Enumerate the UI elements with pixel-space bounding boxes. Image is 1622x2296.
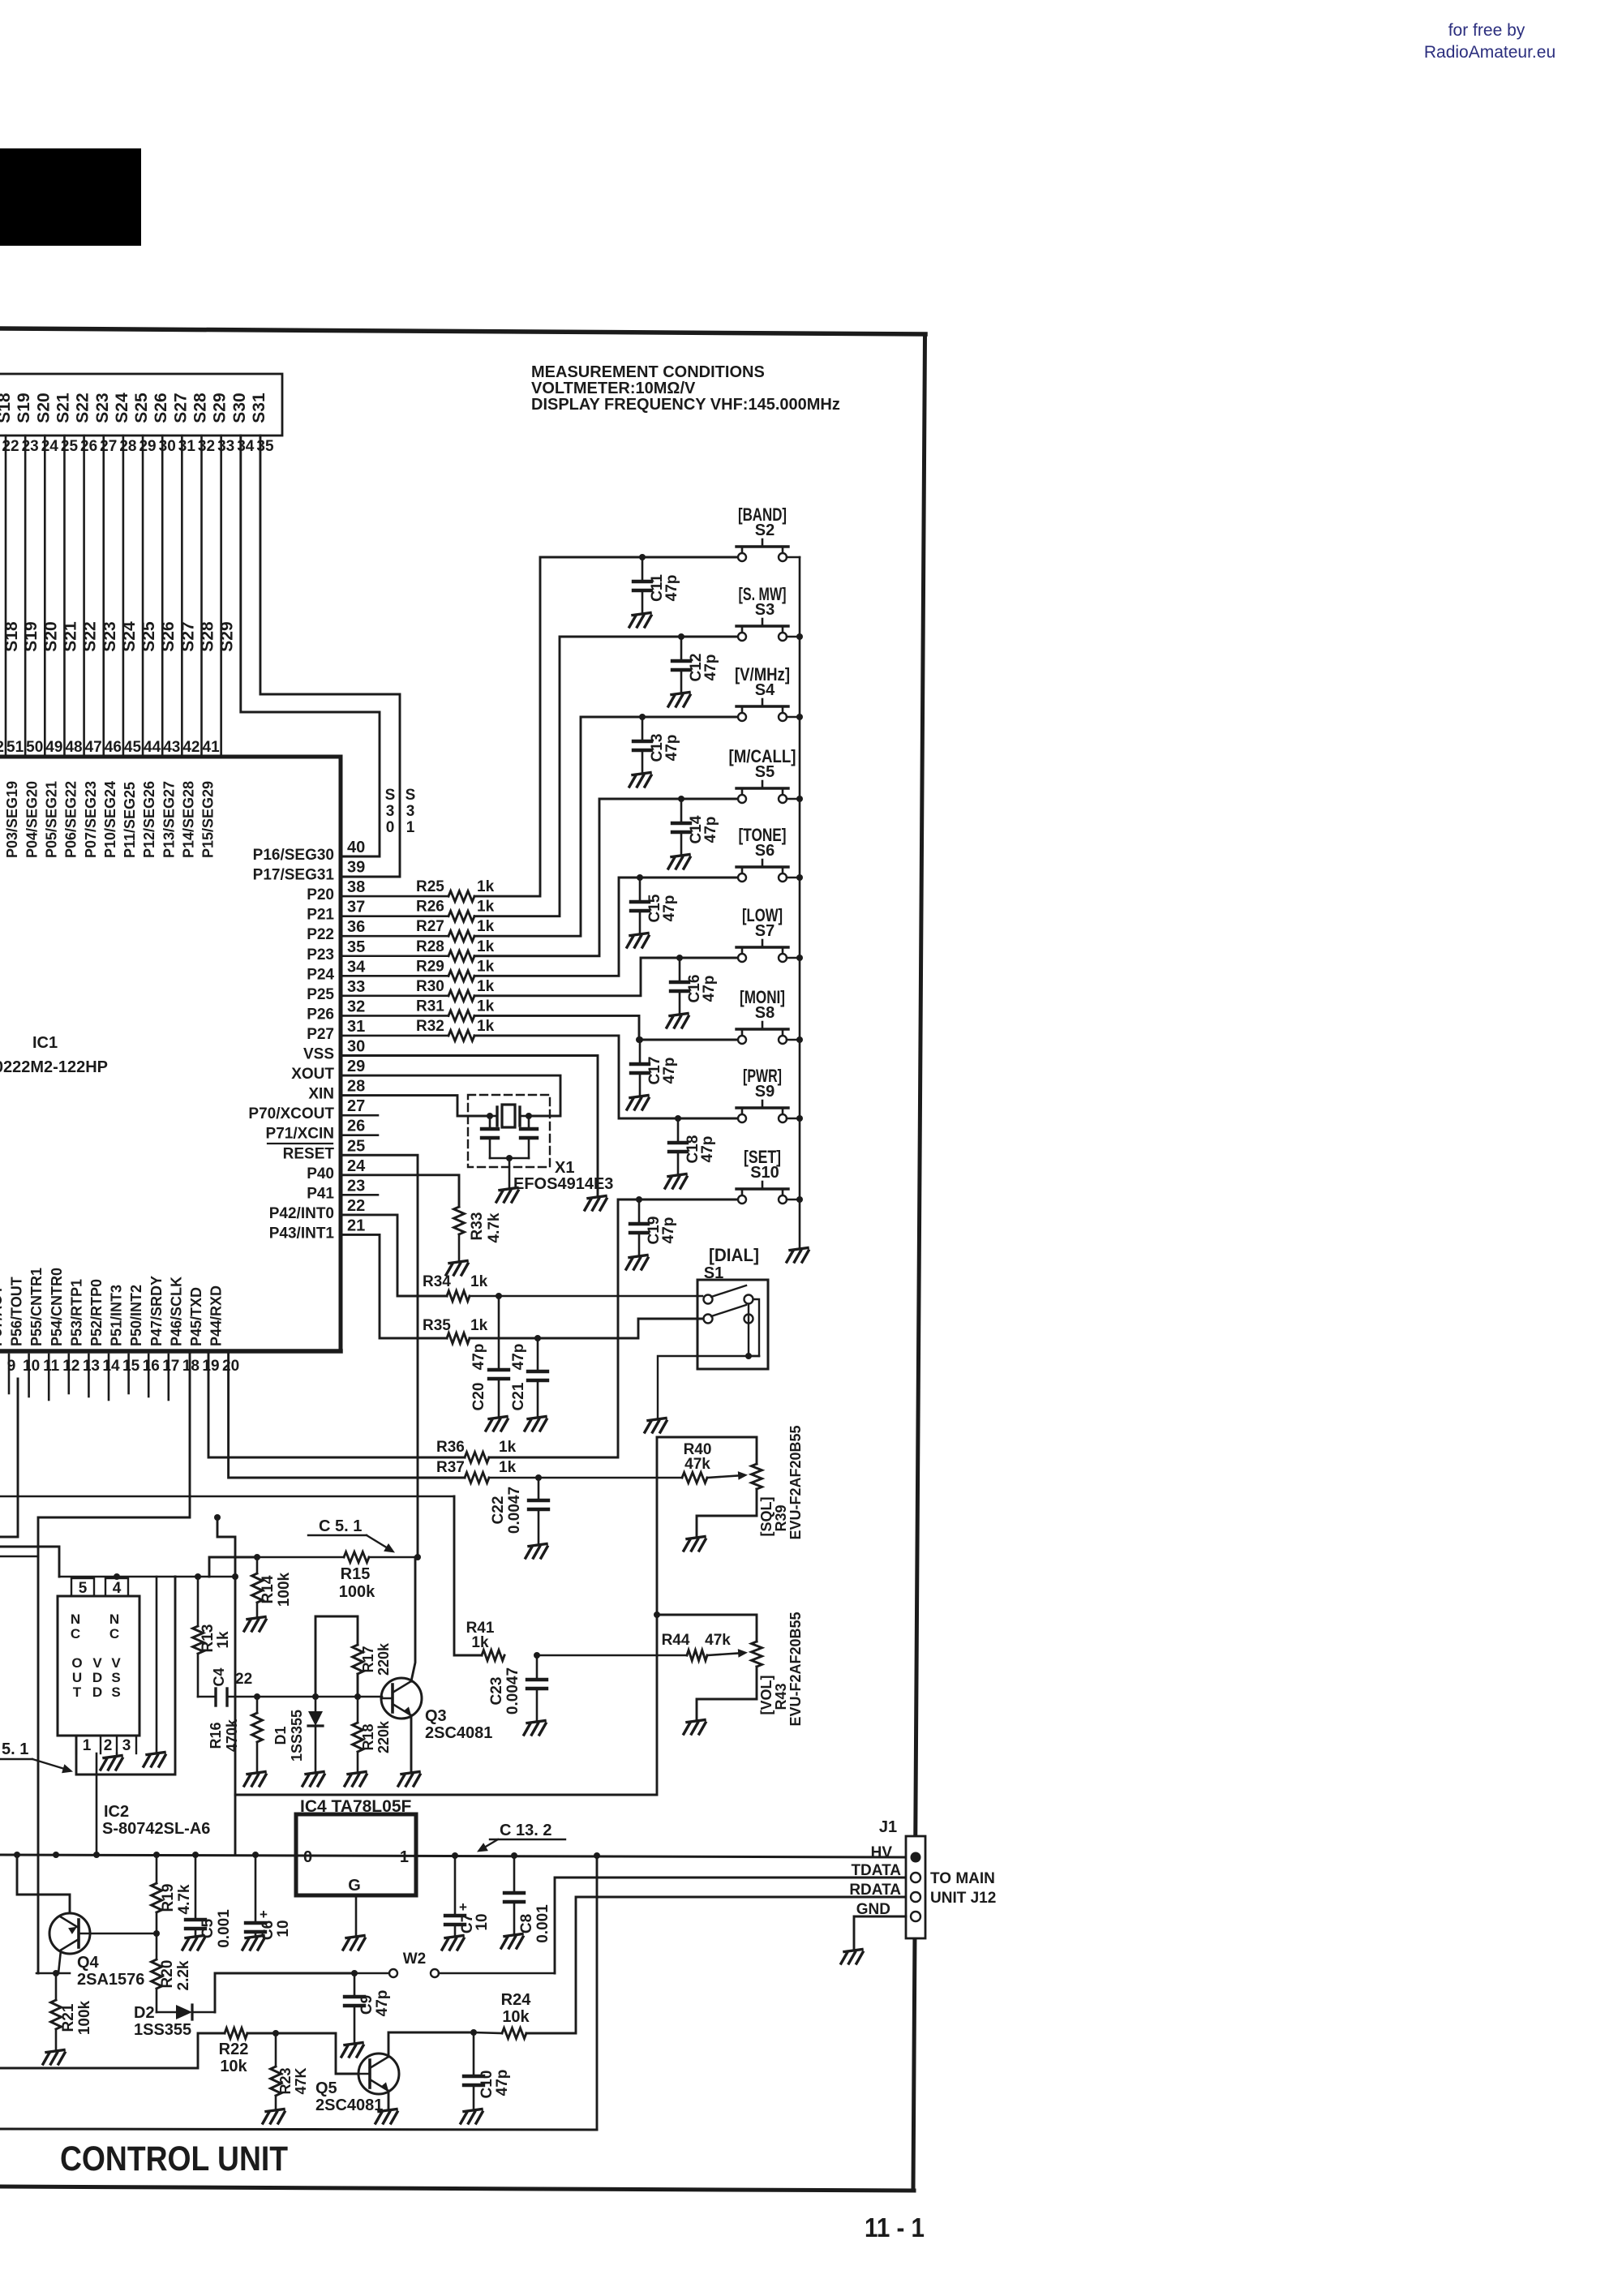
svg-text:R25: R25 <box>416 878 444 895</box>
IC1 pin label P25 <box>307 986 334 1003</box>
resistor R33 4.7k <box>341 1175 503 1260</box>
connector pin number 23 <box>22 438 39 455</box>
svg-text:R24: R24 <box>501 1991 532 2009</box>
ground (C6) <box>242 1936 264 1951</box>
Q4 emitter wire <box>17 1855 70 1913</box>
IC1 pin number 37 <box>347 899 365 916</box>
svg-text:C9: C9 <box>358 1995 375 2015</box>
diode D1 1SS355 <box>272 1697 323 1771</box>
svg-text:HV: HV <box>871 1844 893 1861</box>
wire S22 (connector to IC1 pin 48) <box>83 436 85 755</box>
resistor R17 220k <box>315 1616 392 1697</box>
svg-text:16: 16 <box>143 1358 160 1375</box>
svg-text:P54/CNTR0: P54/CNTR0 <box>49 1268 65 1346</box>
IC1 pin number 48 <box>65 739 82 756</box>
IC1 pin label P43/INT1 <box>269 1225 335 1242</box>
svg-text:+: + <box>260 1907 268 1922</box>
connector label S26 <box>152 393 170 423</box>
ground (C5) <box>182 1936 204 1951</box>
callout C 13.2 <box>477 1822 565 1852</box>
wire pin20 to R37 <box>229 1354 465 1478</box>
net label S28 <box>199 621 217 652</box>
ground (IC2 pins) <box>101 1756 122 1770</box>
svg-text:S21: S21 <box>61 621 79 652</box>
svg-text:for free by: for free by <box>1448 21 1525 40</box>
capacitor C14 47p <box>672 796 719 856</box>
connector label S23 <box>93 393 112 423</box>
svg-text:C20: C20 <box>470 1383 487 1411</box>
svg-text:47p: 47p <box>663 575 680 602</box>
svg-text:S22: S22 <box>74 393 92 423</box>
svg-text:38: 38 <box>347 878 365 896</box>
jumper W2 <box>354 1951 555 1977</box>
svg-text:IC2: IC2 <box>104 1803 129 1821</box>
capacitor C10 47p <box>464 2032 511 2109</box>
connector label S19 <box>15 393 33 423</box>
svg-text:42: 42 <box>182 739 200 756</box>
svg-text:1k: 1k <box>470 1317 488 1334</box>
svg-text:P57/AOT: P57/AOT <box>0 1285 5 1346</box>
switch S2 [BAND] <box>736 504 800 561</box>
svg-text:31: 31 <box>347 1018 365 1036</box>
svg-text:P03/SEG19: P03/SEG19 <box>4 781 20 858</box>
svg-text:TDATA: TDATA <box>851 1862 901 1879</box>
transistor Q3 2SC4081 <box>381 1678 492 1742</box>
wire S21 (connector to IC1 pin 49) <box>63 436 66 755</box>
IC2 pin 4 stub box <box>105 1578 128 1597</box>
redacted black block <box>0 148 141 246</box>
svg-text:1SS355: 1SS355 <box>289 1710 305 1762</box>
svg-text:10k: 10k <box>220 2058 247 2075</box>
svg-text:1k: 1k <box>477 998 495 1015</box>
svg-text:R44: R44 <box>662 1632 690 1649</box>
ground (C16) <box>667 1014 689 1028</box>
IC2 reference label <box>102 1803 210 1838</box>
IC1 pin label VSS <box>303 1046 334 1063</box>
wire S20 (connector to IC1 pin 50) <box>44 436 46 755</box>
capacitor Xtal right <box>521 1116 537 1158</box>
svg-text:47p: 47p <box>510 1344 527 1371</box>
svg-text:47p: 47p <box>374 1990 391 2017</box>
wire rail branch down <box>596 1856 599 2129</box>
junction rail x736 <box>594 1852 600 1859</box>
svg-text:RDATA: RDATA <box>849 1882 901 1899</box>
junction bus S5 <box>796 796 803 802</box>
svg-text:22: 22 <box>2 438 19 455</box>
wire R25 to S2 <box>474 557 736 896</box>
IC1 pin label P05/SEG21 <box>43 781 59 858</box>
ground (C14) <box>668 855 690 869</box>
svg-text:P14/SEG28: P14/SEG28 <box>181 781 197 858</box>
IC1 pin 10 stub <box>28 1354 30 1397</box>
IC1 pin number 39 <box>347 859 365 877</box>
junction bus S8 <box>796 1036 803 1043</box>
capacitor C23 0.0047 <box>488 1655 547 1720</box>
net label S20 <box>41 621 60 651</box>
resistor R44 47k <box>537 1632 731 1661</box>
svg-text:VOLTMETER:10MΩ/V: VOLTMETER:10MΩ/V <box>531 380 696 397</box>
wire R35 to S1 lower contact <box>470 1319 702 1338</box>
svg-text:VSS: VSS <box>303 1046 334 1063</box>
IC2 pin 4 lead <box>116 1577 118 1578</box>
svg-text:V: V <box>92 1655 102 1671</box>
Q3 emitter wire <box>410 1715 413 1771</box>
junction bus S9 <box>796 1115 803 1122</box>
IC1 pin label P06/SEG22 <box>63 781 79 858</box>
svg-text:0.001: 0.001 <box>534 1904 551 1943</box>
svg-text:P13/SEG27: P13/SEG27 <box>161 781 177 858</box>
svg-text:S19: S19 <box>15 393 33 423</box>
frame top border <box>0 328 925 334</box>
ground (R21) <box>43 2050 65 2065</box>
IC2 label VSS <box>111 1655 121 1700</box>
svg-text:47: 47 <box>85 739 102 756</box>
svg-text:S2: S2 <box>755 521 775 539</box>
svg-text:P07/SEG23: P07/SEG23 <box>83 781 99 858</box>
svg-text:P41: P41 <box>307 1185 334 1202</box>
IC1 pin label P44/RXD <box>208 1285 225 1346</box>
svg-text:P70/XCOUT: P70/XCOUT <box>248 1105 334 1122</box>
IC1 pin label P45/TXD <box>188 1287 204 1346</box>
wire Q4 node row <box>36 1970 70 1976</box>
IC1 bottom pin number 16 <box>143 1358 160 1375</box>
svg-text:S: S <box>111 1684 120 1700</box>
svg-text:29: 29 <box>139 438 156 455</box>
svg-text:1k: 1k <box>477 918 495 935</box>
IC2 label VDD <box>92 1655 102 1700</box>
svg-text:TO MAIN: TO MAIN <box>930 1870 995 1887</box>
IC1 pin label P27 <box>307 1026 334 1043</box>
svg-text:D: D <box>92 1670 102 1685</box>
svg-text:G: G <box>348 1877 361 1895</box>
IC1 pin label P52/RTP0 <box>88 1279 105 1346</box>
svg-text:EVU-F2AF20B55: EVU-F2AF20B55 <box>787 1611 804 1726</box>
svg-text:P46/SCLK: P46/SCLK <box>168 1277 184 1346</box>
capacitor C5 0.001 <box>186 1855 233 1948</box>
net label S23 <box>101 621 119 651</box>
capacitor C15 47p <box>631 874 678 934</box>
svg-text:1: 1 <box>400 1848 409 1866</box>
svg-text:10: 10 <box>474 1913 491 1930</box>
junction C20 <box>496 1293 502 1299</box>
svg-text:43: 43 <box>163 739 180 756</box>
ground (S1 common) <box>645 1418 667 1433</box>
resistor R28 1k <box>341 938 495 962</box>
svg-text:34: 34 <box>347 958 366 976</box>
connector label S27 <box>171 393 190 423</box>
connector label S24 <box>113 393 131 423</box>
svg-text:47p: 47p <box>702 817 719 843</box>
ground (D1) <box>303 1772 324 1787</box>
ground (C15) <box>627 933 649 948</box>
J1 pin TDATA <box>851 1862 920 1882</box>
svg-text:11 - 1: 11 - 1 <box>865 2212 925 2242</box>
svg-text:S20: S20 <box>41 621 60 651</box>
svg-text:C4: C4 <box>211 1667 227 1686</box>
svg-text:S25: S25 <box>139 621 158 652</box>
wire crystal caps common <box>490 1155 529 1189</box>
svg-text:P21: P21 <box>307 907 334 924</box>
svg-text:R15: R15 <box>341 1565 371 1583</box>
svg-text:470k: 470k <box>224 1719 240 1752</box>
svg-text:22: 22 <box>235 1671 252 1688</box>
IC1 pin 9 stub <box>8 1354 11 1393</box>
svg-text:P24: P24 <box>307 966 334 983</box>
IC4 pin 1 <box>400 1848 409 1866</box>
svg-text:S25: S25 <box>132 393 151 423</box>
svg-text:P50/INT2: P50/INT2 <box>128 1285 144 1346</box>
connector pin number 21 (clipped) <box>0 438 1 455</box>
J1 pin HV <box>871 1844 921 1863</box>
svg-text:R43: R43 <box>773 1683 789 1710</box>
IC1 pin label P40 <box>307 1165 334 1182</box>
svg-text:0.0047: 0.0047 <box>506 1487 523 1534</box>
svg-text:10: 10 <box>23 1358 40 1375</box>
junction rail x193 <box>153 1852 160 1858</box>
wire P43 pin21 to R35 <box>341 1234 447 1338</box>
svg-text:26: 26 <box>80 438 97 455</box>
resistor R31 1k <box>341 998 495 1021</box>
IC1 pin label P17/SEG31 <box>253 867 335 884</box>
IC1 pin number 41 <box>203 739 221 756</box>
switch S4 [V/MHz] <box>735 664 800 721</box>
wire rail stub left <box>0 1547 59 1577</box>
svg-text:R18: R18 <box>360 1723 376 1750</box>
wiper arrow R44 to R43 <box>707 1649 748 1658</box>
J1 reference label <box>879 1818 897 1836</box>
svg-text:R28: R28 <box>416 938 444 955</box>
wire XIN pin28 to crystal <box>341 1096 490 1116</box>
capacitor C13 47p <box>633 714 680 774</box>
svg-text:S4: S4 <box>755 681 775 699</box>
svg-text:22: 22 <box>347 1197 365 1215</box>
svg-text:UNIT J12: UNIT J12 <box>930 1890 996 1907</box>
text MEASUREMENT CONDITIONS <box>531 363 840 414</box>
resistor R41 1k <box>454 1496 504 1661</box>
svg-text:0.0047: 0.0047 <box>504 1667 521 1714</box>
svg-text:P40: P40 <box>307 1165 334 1182</box>
ground (R33) <box>446 1261 468 1276</box>
junction bus S3 <box>796 633 803 640</box>
transistor Q4 2SA1576 <box>49 1913 144 1989</box>
wire P42 pin22 to R34 <box>341 1215 447 1296</box>
svg-text:R39: R39 <box>773 1504 789 1531</box>
IC1 pin label P02/SEG18 <box>0 781 1 858</box>
svg-text:S5: S5 <box>755 763 775 781</box>
capacitor C16 47p <box>671 955 718 1015</box>
net label S29 <box>218 621 237 651</box>
connector label S18 <box>0 393 14 423</box>
svg-text:P12/SEG26: P12/SEG26 <box>141 781 157 858</box>
IC1 pin label P22 <box>307 926 334 943</box>
svg-text:D: D <box>92 1684 102 1700</box>
resistor R14 100k <box>252 1557 294 1616</box>
IC1 pin label P23 <box>307 946 334 963</box>
switch S1 [DIAL] label <box>704 1245 759 1282</box>
wiper arrow R40 to R39 <box>707 1471 748 1480</box>
ground (VDD rail) <box>144 1753 165 1767</box>
wire R28 to S5 <box>474 799 736 956</box>
capacitor C7 10 electrolytic <box>445 1856 491 1935</box>
IC2 pin1 wire to rail <box>93 1753 100 1858</box>
svg-text:52: 52 <box>0 739 4 756</box>
svg-text:1k: 1k <box>477 978 495 995</box>
wire R37 to R40 <box>489 1477 682 1479</box>
IC1 bottom pin number 15 <box>122 1358 140 1375</box>
svg-text:C22: C22 <box>490 1496 507 1525</box>
junction C23 <box>534 1652 540 1659</box>
wire R24 to RDATA <box>526 1897 910 2033</box>
junction rail x21 <box>14 1852 20 1858</box>
IC1 pin number 47 <box>85 739 102 756</box>
connector label S31 <box>250 393 268 423</box>
svg-text:37: 37 <box>347 899 365 916</box>
svg-text:5. 1: 5. 1 <box>2 1740 28 1758</box>
IC1 pin number 28 <box>347 1078 365 1096</box>
capacitor C21 47p <box>510 1338 547 1416</box>
Q4 collector wire <box>58 1951 61 1973</box>
wire R36 to S10 <box>489 1199 736 1457</box>
svg-text:P15/SEG29: P15/SEG29 <box>200 781 217 858</box>
svg-text:25: 25 <box>347 1137 365 1155</box>
svg-text:R36: R36 <box>436 1439 465 1456</box>
capacitor C8 0.001 <box>504 1856 551 1943</box>
junction rail x634 <box>511 1852 517 1859</box>
svg-text:1k: 1k <box>477 1018 495 1035</box>
IC1 pin label P55/CNTR1 <box>28 1268 45 1346</box>
IC1 pin number 23 <box>347 1177 365 1195</box>
IC1 pin label P16/SEG30 <box>253 847 334 864</box>
svg-text:P55/CNTR1: P55/CNTR1 <box>28 1268 45 1346</box>
svg-text:14: 14 <box>102 1358 120 1375</box>
svg-text:1SS355: 1SS355 <box>134 2021 191 2039</box>
svg-text:S-80742SL-A6: S-80742SL-A6 <box>102 1820 210 1838</box>
wire XOUT pin29 to crystal <box>341 1075 560 1116</box>
resistor R35 1k <box>423 1317 488 1344</box>
wire VDD rail (IC2) <box>59 1573 238 1580</box>
wire pin19 to R36 <box>208 1354 465 1457</box>
wire rail-to-ground <box>156 1577 158 1752</box>
svg-text:U: U <box>72 1670 82 1685</box>
svg-text:IC4 TA78L05F: IC4 TA78L05F <box>300 1797 411 1816</box>
svg-text:R37: R37 <box>436 1459 465 1476</box>
svg-text:XIN: XIN <box>308 1086 334 1103</box>
svg-text:[VOL]: [VOL] <box>758 1676 775 1715</box>
svg-text:S29: S29 <box>218 621 237 651</box>
ground (C12) <box>668 693 690 707</box>
svg-text:21: 21 <box>347 1217 365 1234</box>
junction R31/S8 <box>636 1036 642 1043</box>
resistor R34 1k <box>423 1273 488 1302</box>
wire pots supply <box>235 1437 660 1795</box>
IC1 pin label P41 <box>307 1185 334 1202</box>
svg-text:4: 4 <box>113 1580 122 1597</box>
ground (Q3) <box>398 1772 420 1787</box>
connector pin number 25 <box>61 438 79 455</box>
svg-text:S10: S10 <box>750 1164 779 1182</box>
IC1 pin label P56/TOUT <box>9 1277 25 1346</box>
svg-text:29: 29 <box>347 1058 365 1075</box>
connector pin number 31 <box>178 438 196 455</box>
svg-text:44: 44 <box>144 739 161 756</box>
svg-text:24: 24 <box>347 1157 366 1175</box>
IC1 part number M222M2-122HP (clipped) <box>0 1058 108 1076</box>
watermark text 'for free by' <box>1448 21 1525 40</box>
X1 part number <box>513 1175 613 1193</box>
svg-text:S31: S31 <box>250 393 268 423</box>
connector pin number 27 <box>100 438 117 455</box>
junction rail x69 <box>53 1852 59 1858</box>
ground (C10) <box>461 2109 483 2124</box>
IC1 pin number 51 <box>6 739 24 756</box>
IC1 pin label P07/SEG23 <box>83 781 99 858</box>
switch S5 [M/CALL] <box>729 746 800 803</box>
svg-text:1k: 1k <box>477 899 495 916</box>
IC1 pin label P57/AOT <box>0 1285 5 1346</box>
connector label S30 <box>230 393 249 423</box>
svg-text:1: 1 <box>406 819 415 836</box>
svg-text:49: 49 <box>45 739 62 756</box>
svg-text:33: 33 <box>217 438 234 455</box>
switch common bus <box>799 557 801 1247</box>
svg-text:3: 3 <box>386 803 395 820</box>
diode D2 1SS355 <box>134 2004 215 2039</box>
svg-text:P16/SEG30: P16/SEG30 <box>253 847 334 864</box>
svg-text:S30: S30 <box>230 393 249 423</box>
junction bus S7 <box>796 955 803 961</box>
net label S27 <box>178 621 197 651</box>
svg-text:3: 3 <box>406 803 415 820</box>
svg-text:P53/RTP1: P53/RTP1 <box>68 1279 84 1346</box>
IC1 pin label P24 <box>307 966 334 983</box>
junction rail x315 <box>252 1852 259 1858</box>
svg-text:D2: D2 <box>134 2004 155 2022</box>
svg-text:2.2k: 2.2k <box>175 1960 192 1990</box>
IC1 pin label P70/XCOUT <box>248 1105 334 1122</box>
svg-text:EFOS4914E3: EFOS4914E3 <box>513 1175 613 1193</box>
svg-text:17: 17 <box>162 1358 179 1375</box>
IC1 pin label P50/INT2 <box>128 1285 144 1346</box>
ground (R23) <box>263 2109 285 2124</box>
wire S18 (connector to IC1 pin 52) <box>5 436 7 755</box>
RESET overline <box>268 1143 333 1144</box>
svg-text:P44/RXD: P44/RXD <box>208 1285 225 1346</box>
svg-text:P04/SEG20: P04/SEG20 <box>24 781 40 858</box>
IC1 bottom pin number 11 <box>43 1358 60 1375</box>
svg-text:S8: S8 <box>755 1004 775 1022</box>
net label S24 <box>120 621 139 652</box>
wire R27 to S4 <box>474 717 736 936</box>
IC1 pin number 45 <box>124 739 142 756</box>
svg-text:47p: 47p <box>470 1344 487 1371</box>
svg-text:1k: 1k <box>477 958 495 975</box>
svg-text:P52/RTP0: P52/RTP0 <box>88 1279 105 1346</box>
IC1 pin 12 stub <box>68 1354 71 1393</box>
IC1 pin 26 stub <box>341 1134 378 1136</box>
svg-text:24: 24 <box>41 438 59 455</box>
svg-text:47p: 47p <box>661 895 678 922</box>
IC1 pin label P10/SEG24 <box>102 781 118 858</box>
junction C9 <box>351 1970 358 1976</box>
IC1 pin number 34 <box>347 958 366 976</box>
svg-text:P22: P22 <box>307 926 334 943</box>
wire H4 branch <box>0 1379 18 1537</box>
IC1 pin label P42/INT0 <box>269 1205 334 1222</box>
frame bottom border <box>0 2187 914 2191</box>
svg-text:R33: R33 <box>469 1212 486 1241</box>
svg-text:S20: S20 <box>34 393 53 423</box>
capacitor C12 47p <box>672 633 719 693</box>
